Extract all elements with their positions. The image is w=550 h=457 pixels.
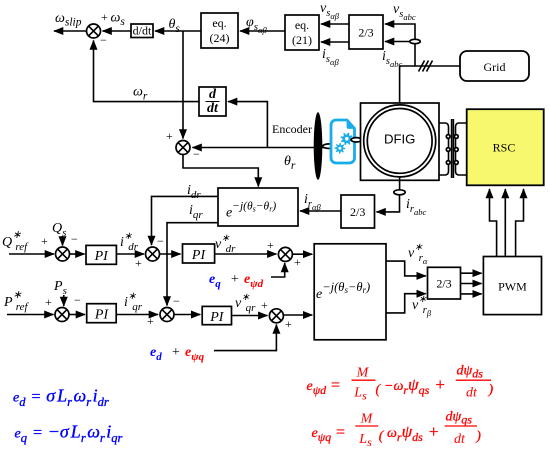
wire S2 output to exp block top [183,155,258,187]
svg-text:RSC: RSC [493,141,516,155]
equation e_psiq red [312,410,482,450]
slip ring right bracket [456,123,467,175]
block PI1 [86,245,116,264]
DFIG inner circle [367,108,432,173]
summing junction SF [269,309,283,323]
svg-text:M: M [360,412,374,427]
wire i_dr feedback [152,196,219,245]
encoder disc [314,112,323,180]
block d/dt fraction (rotor speed) [199,87,226,116]
svg-text:−: − [74,293,81,307]
wire PWM to RSC left [490,189,497,257]
svg-text:PI: PI [209,310,225,325]
svg-text:+: + [294,255,301,269]
block PI4 [202,306,231,325]
svg-text:−: − [157,234,164,248]
slip ring contacts left [446,135,450,165]
wire 2/3 to PWM b [461,283,482,285]
svg-text:−: − [173,294,180,308]
wire SF to exp voltage block [283,314,312,316]
wire Ps down to SD [63,295,65,306]
wire PWM to RSC right [516,189,524,257]
block eq21 [285,15,319,50]
wire i_qr feedback [167,223,218,306]
shaft coupling right ellipse [351,138,361,142]
svg-text:2/3: 2/3 [358,26,373,40]
svg-text:PI: PI [94,249,110,264]
wire v_r_beta to 2/3 [386,294,426,313]
svg-text:+: + [45,295,52,309]
svg-text:PI: PI [94,308,110,323]
wire PWM to RSC middle [504,189,506,257]
wire SE to PI4 [174,314,200,316]
svg-text:+: + [261,298,268,312]
wire SA to PI1 [70,253,85,255]
wire SC to exp voltage block [292,253,312,255]
three-phase slash marks [419,61,433,72]
svg-text:+: + [230,272,239,287]
svg-text:Ls: Ls [358,432,372,449]
svg-text:−: − [193,147,200,161]
block PWM [483,257,541,315]
svg-text:2/3: 2/3 [350,205,365,219]
wire e compensation to SF bottom [214,325,276,351]
svg-text:eq.: eq. [212,16,226,30]
wire theta_s branch down to S2 [182,31,184,139]
summing junction SA [56,247,70,261]
svg-text:2/3: 2/3 [436,277,451,291]
svg-text:): ) [488,383,494,398]
shaft line disc to gearbox [318,147,334,149]
wire eq21 to eq24 (phi_s_alphabeta) [240,30,285,32]
wire i_s_abc tap to 2/3 [385,41,410,43]
wire 2/3 to eq21 i_s_alphabeta [321,41,349,43]
block 2/3 stator [349,15,383,49]
wire eq24 to d/dt [155,30,201,32]
svg-text:−ωrψqs+: −ωrψqs+ [384,375,446,397]
wire DFIG bottom to rotor tap [399,177,401,191]
wire PI1 to SB [116,253,144,255]
svg-text:Encoder: Encoder [272,122,312,136]
svg-text:dψds: dψds [457,364,484,381]
wire stator vertical to grid junction [415,44,460,66]
block d/dt (stator frequency) [131,24,153,38]
wire SB to PI2 [160,253,181,255]
summing junction S2 (theta_s - theta_r) [176,141,190,155]
wire e compensation to SC bottom [271,263,285,277]
svg-text:dt: dt [207,101,219,116]
wire encoder shaft to S2 (theta_r) [193,147,317,149]
node rotor current tap ellipse [394,190,405,195]
wire PI4 to SF [232,315,268,317]
equation e_psid red [307,364,494,403]
block exp(-j(theta_s-theta_r)) current transform [218,188,298,226]
svg-text:+: + [267,238,274,252]
summing junction SD [55,308,69,322]
block PI3 [87,304,117,323]
svg-text:dt: dt [466,386,478,401]
block PI2 [183,244,215,263]
svg-text:+: + [135,256,142,270]
block RSC (yellow) [467,109,544,185]
summing junction SB [146,247,160,261]
svg-text:+: + [101,10,108,24]
block exp(-j(theta_s-theta_r)) voltage transform [314,244,386,340]
svg-text:−: − [71,232,78,246]
gearbox icon (cyan document with gears) [331,120,355,163]
svg-text:(21): (21) [292,33,312,47]
node stator current tap (ellipse) [410,39,420,43]
svg-text:dt: dt [454,432,466,447]
block Grid [460,51,529,81]
svg-text:): ) [475,429,481,444]
block 2/3 rotor [341,195,375,228]
svg-text:M: M [356,366,370,381]
shaft line coupling to DFIG [361,139,367,141]
svg-text:Grid: Grid [484,60,506,74]
wire PI3 to SE [116,314,158,316]
wire 2/3 rotor to exp block [300,210,341,212]
svg-text:eq.: eq. [295,18,309,32]
wire Pref to SD [7,314,54,316]
shaft coupling left ellipse [323,144,337,149]
wire omega_r from d/dt to S1 bottom [94,41,200,102]
wire omega_slip output arrow [54,30,87,32]
wire SD to PI3 [69,314,85,316]
wire d/dt to S1 [103,30,132,32]
summing junction SC [278,247,292,261]
wire Qs down to SA [62,236,64,246]
wire theta_r tap to d/dt fraction [228,102,267,148]
wire 2/3 to PWM a [461,272,482,274]
svg-text:+: + [285,317,292,331]
wire v_r_alpha to 2/3 [386,261,426,276]
wire 2/3 to eq21 v_s_alphabeta [321,23,349,25]
wire grid junction to DFIG top [400,66,415,107]
svg-text:PI: PI [191,248,207,263]
svg-text:+: + [147,314,154,328]
slip ring contacts right [454,135,458,165]
block 2/3 voltage [428,267,461,299]
wire rotor tap to 2/3 rotor [377,195,400,212]
svg-text:d: d [209,87,217,102]
wire PI2 to SC [215,253,277,255]
svg-text:DFIG: DFIG [384,132,416,147]
svg-text:+: + [41,234,48,248]
DFIG outer circle [364,105,436,177]
svg-text:PWM: PWM [498,280,527,294]
svg-text:+: + [171,345,180,360]
block DFIG box [361,103,440,180]
wire Qref to SA [9,253,54,255]
svg-text:d/dt: d/dt [133,24,152,38]
summing junction SE [160,308,174,322]
svg-text:+: + [166,129,173,143]
block eq24 [201,13,238,48]
wire v_s_abc tap to 2/3 [385,24,415,41]
svg-text:dψqs: dψqs [446,410,473,427]
wire 2/3 to PWM c [461,293,482,295]
svg-text:−: − [100,33,107,47]
slip ring center bars [452,119,454,178]
summing junction S1 (omega_s - omega_r) [87,24,101,38]
slip ring left bracket [439,123,449,175]
svg-text:(24): (24) [210,31,230,45]
svg-text:Ls: Ls [353,386,367,403]
